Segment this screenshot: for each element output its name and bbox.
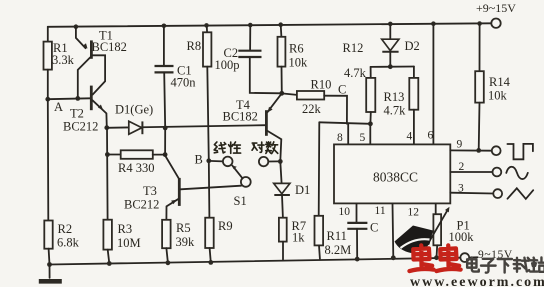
wire T4 collector diagonal — [267, 93, 282, 112]
terminal triangle output — [493, 189, 502, 198]
wire bottom ground rail — [50, 258, 461, 265]
wire R8 down through base cross to node B — [207, 67, 209, 218]
svg-text:B: B — [195, 153, 203, 167]
wire R13 bottom pin4 stub — [413, 110, 415, 145]
wire top +V rail — [48, 23, 491, 27]
resistor R13 — [384, 67, 419, 118]
resistor R3 — [103, 220, 140, 250]
wire C bottom to ground rail — [356, 229, 358, 259]
node dot R12 bottom pin5 — [368, 121, 373, 126]
svg-text:D2: D2 — [405, 39, 420, 53]
diode D1 — [274, 183, 311, 197]
resistor R1 — [44, 41, 75, 70]
resistor R12 — [343, 41, 376, 112]
resistor R10 — [282, 78, 332, 117]
switch S1 — [223, 157, 251, 208]
node dot R14 bottom — [476, 148, 481, 153]
svg-text:5: 5 — [360, 132, 366, 144]
capacitor C timing — [347, 221, 378, 235]
svg-text:D1: D1 — [295, 183, 310, 197]
label linear — [214, 142, 241, 153]
svg-text:9: 9 — [457, 139, 463, 151]
wire T2 node down to R3 — [106, 128, 109, 220]
svg-text:T3: T3 — [143, 184, 157, 198]
svg-text:10k: 10k — [488, 89, 508, 103]
wire C2 branch from rail — [249, 25, 251, 50]
node dot T4 collector junction — [279, 91, 284, 96]
resistor R9 — [205, 218, 232, 248]
sine wave symbol — [506, 167, 528, 179]
node dot R4 right — [163, 152, 168, 157]
svg-text:R6: R6 — [289, 42, 304, 56]
node dot D2 branch on top rail — [388, 22, 393, 27]
label log — [252, 142, 278, 154]
wire node B to linear contact — [209, 160, 223, 163]
wire T1 collector to node A rail — [78, 57, 90, 98]
wire R1 to node A — [47, 70, 49, 100]
wire pin6 stub from rail — [432, 24, 434, 145]
wire C2 bottom to T4 collector node — [250, 57, 282, 93]
svg-text:T2: T2 — [70, 107, 84, 121]
svg-text:6.8k: 6.8k — [57, 236, 80, 250]
watermark logo hat — [395, 226, 434, 254]
transistor T3 — [124, 178, 179, 212]
wire pin9 output — [450, 149, 491, 151]
wire pins 8-5 bus — [319, 122, 370, 124]
diode D1(Ge) — [115, 103, 153, 135]
wire pin2 output — [450, 171, 492, 173]
node dot C1 at D1 wire — [163, 126, 168, 131]
svg-text:R2: R2 — [58, 222, 73, 236]
terminal square output — [492, 146, 501, 155]
svg-text:R3: R3 — [118, 222, 133, 236]
svg-text:R8: R8 — [187, 39, 202, 53]
transistor T2 — [63, 86, 103, 134]
transistor T4 — [223, 98, 273, 136]
svg-text:R14: R14 — [489, 75, 511, 89]
wire T3 base from R4 node — [165, 156, 179, 179]
resistor R14 — [475, 24, 510, 103]
resistor R2 — [44, 221, 79, 250]
svg-text:R10: R10 — [311, 78, 332, 92]
node dot ground corner — [47, 262, 52, 267]
svg-text:A: A — [54, 100, 63, 114]
wire C1 bottom to D1 wire — [164, 72, 165, 128]
wire C1 branch from rail — [163, 26, 165, 66]
wire R3 to ground rail — [108, 250, 110, 264]
svg-text:R9: R9 — [218, 219, 233, 233]
node dot R6 branch on top rail — [278, 22, 283, 27]
wire D2 cathode to bus — [389, 52, 391, 67]
resistor R5 — [162, 220, 195, 249]
wire pin8 stub — [347, 123, 349, 144]
svg-text:100p: 100p — [215, 58, 240, 72]
wire R5 to ground rail — [166, 248, 168, 263]
svg-text:4: 4 — [407, 131, 413, 143]
wire P1 to ground rail — [436, 245, 439, 257]
node dot P1 ground — [434, 255, 439, 260]
watermark bug2 — [436, 245, 460, 271]
capacitor C2 — [215, 46, 262, 72]
resistor R7 — [279, 218, 306, 245]
wire R6 bottom to node — [281, 67, 283, 94]
watermark bug1 — [409, 245, 433, 271]
svg-text:100k: 100k — [449, 230, 475, 244]
svg-text:10k: 10k — [289, 56, 309, 70]
node dot pin11 ground — [391, 255, 396, 260]
wire R7 to ground rail — [282, 242, 284, 260]
wire R11 riser — [318, 122, 321, 216]
wire R14 to pin9 wire — [478, 103, 481, 151]
node dot D2 bottom — [388, 64, 393, 69]
resistor R8 — [187, 25, 212, 66]
wire R12 bottom to pin5 node — [369, 112, 371, 124]
node dot R5 ground — [166, 260, 171, 265]
svg-text:8.2M: 8.2M — [325, 243, 352, 257]
svg-text:C: C — [338, 83, 346, 97]
wire pin10 stub — [356, 203, 358, 222]
wire pin11 to ground rail — [392, 203, 395, 257]
node dot R14 branch on top rail — [477, 21, 482, 26]
node dot pin6 branch on top rail — [431, 21, 436, 26]
node dot T4 emitter / log / D1 — [278, 159, 283, 164]
diode D2 — [382, 24, 420, 53]
svg-text:R4 330: R4 330 — [118, 161, 154, 175]
node dot T1 branch on top rail — [74, 24, 79, 29]
svg-text:R5: R5 — [176, 221, 191, 235]
svg-text:4.7k: 4.7k — [344, 66, 367, 80]
node dot R8 branch on top rail — [204, 23, 209, 28]
svg-text:8038CC: 8038CC — [373, 170, 418, 185]
potentiometer P1 — [426, 207, 474, 247]
svg-text:+9~15V: +9~15V — [476, 1, 516, 15]
node dot R3 ground — [107, 261, 112, 266]
node B — [195, 153, 212, 167]
svg-text:R13: R13 — [384, 90, 405, 104]
node dot T2 emitter junction — [104, 125, 109, 130]
node dot R4 left — [105, 152, 110, 157]
triangle wave symbol — [508, 188, 534, 199]
wire node A to T2 base — [48, 97, 90, 100]
wire T1 base to T2 collector loop — [93, 55, 106, 94]
resistor R4 — [107, 150, 165, 175]
node dot C1 branch on top rail — [162, 24, 167, 29]
ground — [39, 265, 62, 282]
node dot R9 ground — [208, 260, 213, 265]
wire C1 node down to R4 node — [164, 128, 166, 155]
wire T4 emitter down — [268, 131, 282, 161]
svg-text:BC182: BC182 — [223, 110, 258, 124]
wire node to D1 anode — [280, 161, 281, 183]
svg-text:BC182: BC182 — [92, 40, 127, 54]
svg-text:BC212: BC212 — [63, 120, 98, 134]
wire T3 collector to S1 pole — [181, 186, 242, 190]
terminal bottom supply — [460, 249, 512, 262]
resistor R6 — [278, 25, 309, 70]
wire R11 to ground rail — [318, 245, 321, 258]
wire node A down to R2 — [47, 99, 50, 220]
svg-text:8: 8 — [337, 132, 343, 144]
node dot T1 collector at A wire — [75, 96, 80, 101]
transistor T1 — [83, 29, 127, 59]
svg-text:4.7k: 4.7k — [384, 104, 407, 118]
switch contact log circle — [259, 157, 268, 166]
wire R2 to ground rail — [48, 249, 51, 265]
svg-text:6: 6 — [428, 130, 434, 142]
svg-text:11: 11 — [375, 205, 386, 217]
svg-text:S1: S1 — [234, 194, 247, 208]
svg-text:470n: 470n — [171, 76, 197, 90]
wire node C from R10 down — [324, 96, 347, 124]
wire D1 cathode to R7 — [281, 195, 284, 218]
svg-text:BC212: BC212 — [124, 198, 159, 212]
terminal +9~15V — [476, 1, 516, 28]
wire R12 R13 bus — [371, 66, 414, 68]
wire left rail — [47, 27, 49, 42]
op-amp U1 8038CC — [334, 144, 450, 203]
wire pin5 stub — [369, 124, 371, 145]
wire T2 emitter down to D1 node — [93, 100, 107, 127]
svg-text:R11: R11 — [327, 229, 347, 243]
wire T4 emitter node to log contact — [268, 160, 278, 162]
wire R9 to ground rail — [210, 248, 211, 262]
svg-text:12: 12 — [408, 207, 420, 219]
svg-text:22k: 22k — [302, 102, 322, 116]
wire pin12 stub — [435, 203, 437, 214]
wire T3 emitter to R5 — [166, 199, 178, 220]
svg-text:10: 10 — [339, 206, 351, 218]
svg-text:1k: 1k — [292, 231, 305, 245]
resistor R11 — [315, 216, 352, 257]
svg-text:C: C — [370, 221, 378, 235]
capacitor C1 — [155, 64, 197, 90]
svg-text:39k: 39k — [176, 235, 196, 249]
watermark site name — [467, 257, 544, 272]
wire T1 emitter from rail — [76, 27, 86, 49]
svg-text:www.eeworm.com: www.eeworm.com — [410, 275, 544, 287]
svg-text:3.3k: 3.3k — [52, 53, 75, 67]
wire D1(Ge) horizontal to T4 base — [107, 125, 266, 128]
node dot C ground — [355, 257, 360, 262]
terminal sine output — [493, 168, 502, 177]
square wave symbol — [507, 144, 533, 159]
svg-text:10M: 10M — [117, 236, 141, 250]
wire pin3 output — [450, 192, 493, 195]
svg-text:R12: R12 — [343, 41, 364, 55]
svg-text:D1(Ge): D1(Ge) — [115, 103, 153, 117]
node dot C2 branch on top rail — [248, 23, 253, 28]
node A — [45, 97, 63, 114]
